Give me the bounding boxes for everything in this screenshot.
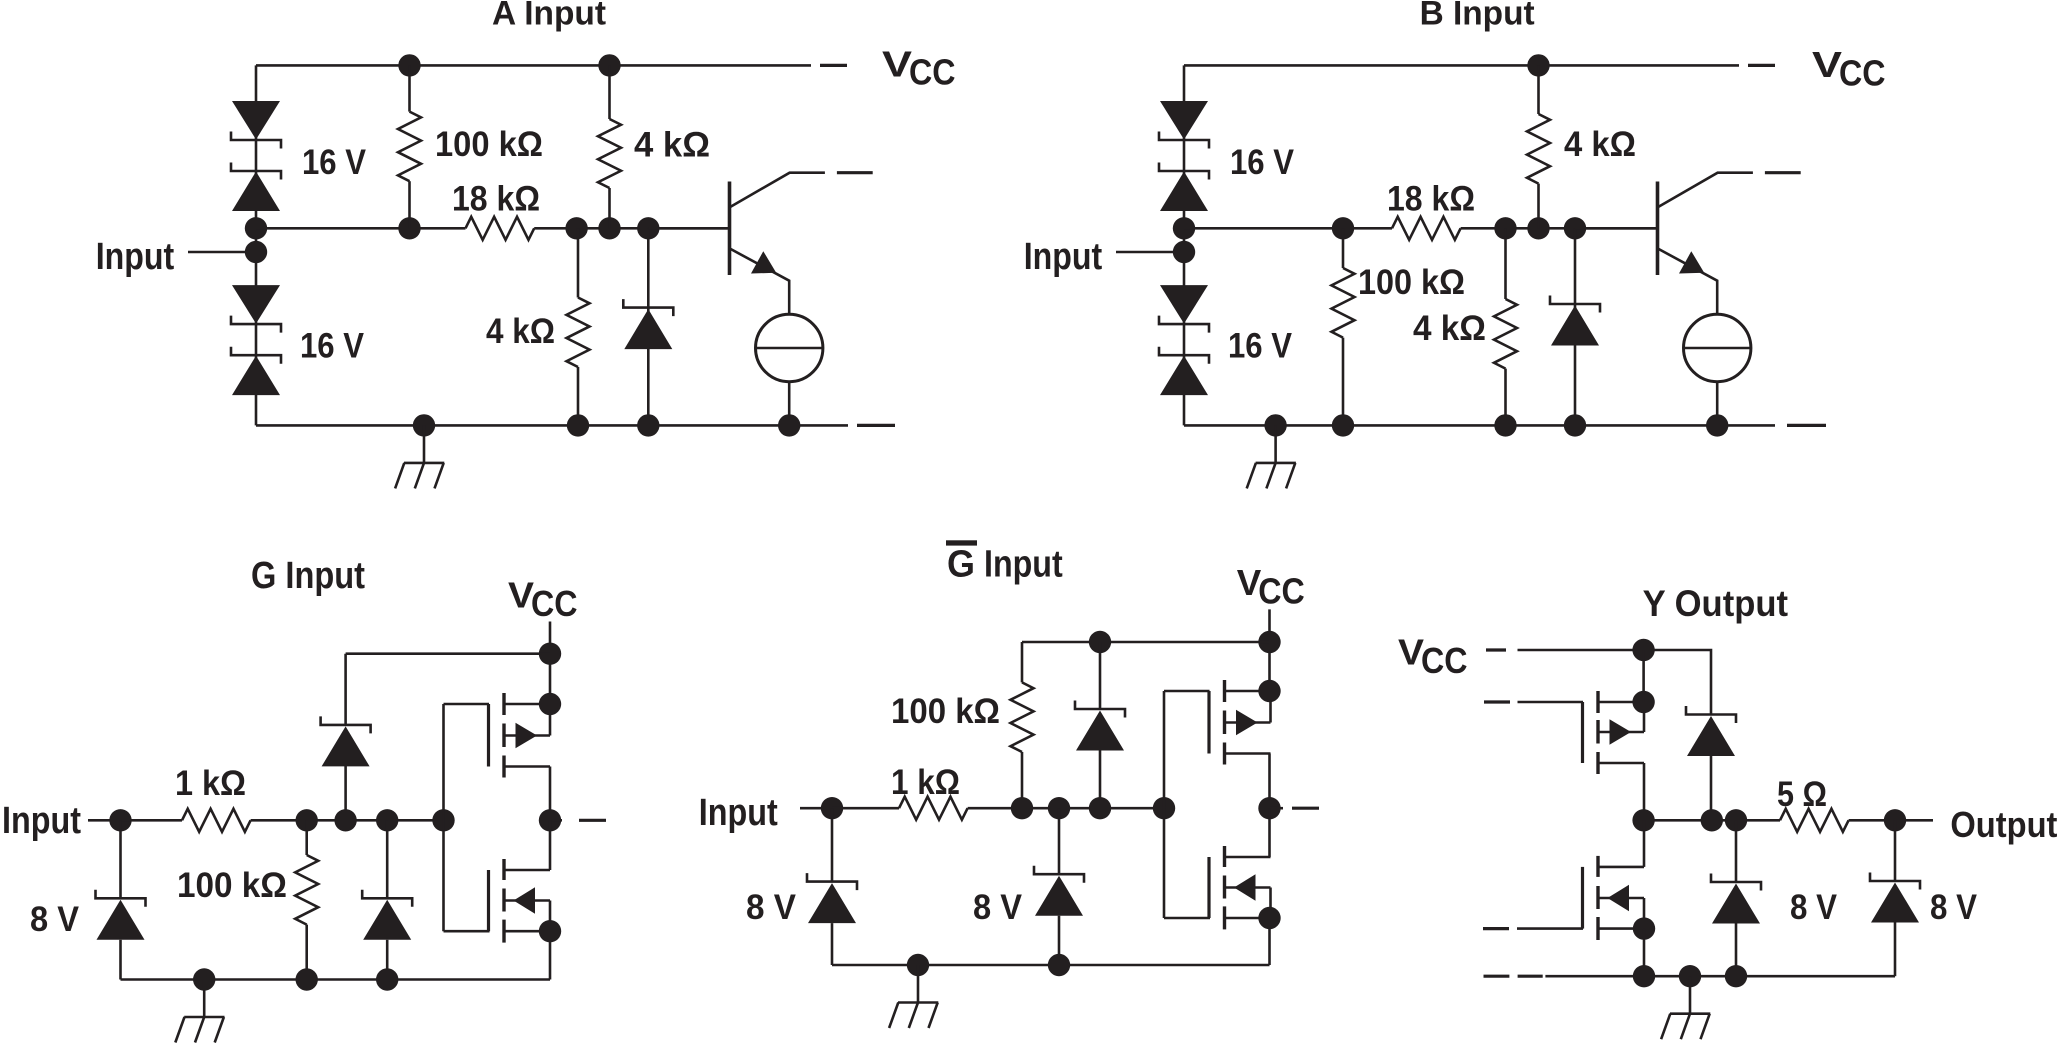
- svg-text:8 V: 8 V: [30, 899, 79, 939]
- wire A mid line right: [534, 227, 729, 230]
- PMOS M1 (G) channel: [502, 693, 505, 778]
- svg-text:8 V: 8 V: [1790, 887, 1837, 927]
- wire Input stub (G): [88, 819, 115, 822]
- zener D4 cathode bar (A): [231, 347, 281, 364]
- wire B mid line left: [1184, 227, 1392, 230]
- wire G-bar top link: [1022, 641, 1270, 644]
- wire Y nmos source to rail: [1643, 929, 1646, 977]
- NMOS M4 (G-bar) body arrow: [1234, 874, 1256, 900]
- svg-text:G: G: [947, 543, 975, 586]
- wire Y NMOS gate lead: [1517, 927, 1583, 930]
- svg-text:CC: CC: [1258, 570, 1305, 611]
- resistor R5 100k (B): [1332, 268, 1355, 338]
- NMOS M2 (G) gate plate: [487, 870, 490, 931]
- wire Q2 base lead: [1575, 227, 1656, 230]
- node A mid-100k junction: [398, 217, 420, 239]
- svg-text:V: V: [1812, 44, 1842, 85]
- svg-text:100 kΩ: 100 kΩ: [435, 124, 543, 164]
- wire G top zener upper lead: [344, 654, 347, 725]
- wire G PMOS gate stub: [444, 703, 490, 706]
- node B gnd-100k junction: [1332, 414, 1354, 436]
- wire G-bar NMOS gate stub: [1164, 917, 1210, 920]
- pin label Output (Y): [1950, 804, 2057, 845]
- title B Input: [1420, 0, 1535, 33]
- wire A input branch: [255, 65, 258, 425]
- wire ground rail (A): [256, 424, 848, 427]
- PMOS M1 (G) body arrow: [516, 723, 538, 748]
- ground (B): [1247, 425, 1296, 488]
- wire G-bar mid line right: [968, 807, 1164, 810]
- NMOS M6 (Y) body arrow: [1608, 885, 1630, 911]
- wire G clamp zener upper lead: [386, 820, 389, 898]
- ground (A): [395, 425, 444, 488]
- zener D13 8V (G input clamp): [96, 890, 146, 940]
- wire 4k pullup top lead (B): [1537, 65, 1540, 114]
- wire ground rail dash (B): [1787, 424, 1826, 427]
- transistor Q2 (B) emitter: [1658, 248, 1718, 315]
- wire 100k top lead (G): [305, 820, 308, 855]
- svg-text:Output: Output: [1950, 804, 2057, 845]
- zener D1 16V (A upper pair, down): [232, 101, 280, 140]
- zener D11 (G top clamp): [321, 716, 371, 766]
- PMOS M3 (G-bar) body lead: [1225, 721, 1271, 724]
- node G-bar vcc junction: [1258, 631, 1280, 653]
- PMOS M5 (Y) channel: [1596, 691, 1599, 774]
- value label 16 V (A lower): [300, 326, 364, 366]
- NMOS M2 (G) source lead: [504, 930, 550, 933]
- resistor R9 1k (G): [182, 809, 251, 832]
- wire G output stub: [550, 819, 562, 822]
- svg-text:CC: CC: [1421, 640, 1468, 681]
- node G-bar input: [821, 797, 843, 819]
- wire Y pmos source to vcc: [1642, 650, 1645, 702]
- resistor R11 100k (G-bar): [1011, 682, 1034, 752]
- wire Input stub (B): [1116, 251, 1176, 254]
- wire ground rail riser (G): [549, 931, 552, 979]
- zener D6 16V (B upper pair, down): [1160, 101, 1208, 140]
- node Y zener-left tap: [1725, 809, 1747, 831]
- zener D9 cathode bar (B): [1159, 347, 1209, 364]
- value label 8 V (Y right): [1930, 887, 1977, 927]
- PMOS M3 (G-bar) drain lead: [1225, 752, 1271, 755]
- value label 4 kOhm pulldown (B): [1413, 308, 1486, 348]
- value label 8 V (G-bar mid): [973, 887, 1022, 927]
- wire G NMOS gate stub: [444, 930, 490, 933]
- resistor R2 18k (A): [466, 217, 535, 240]
- svg-text:Input: Input: [96, 236, 175, 278]
- resistor R6 18k (B): [1392, 217, 1461, 240]
- transistor Q2 (B) base bar: [1656, 182, 1660, 276]
- wire Y PMOS gate lead: [1518, 701, 1584, 704]
- svg-text:CC: CC: [1839, 52, 1886, 93]
- svg-text:100 kΩ: 100 kΩ: [1358, 262, 1465, 302]
- zener D2 16V (A upper pair, up): [232, 172, 280, 212]
- svg-text:1 kΩ: 1 kΩ: [891, 762, 960, 802]
- PMOS M5 (Y) drain lead: [1598, 762, 1644, 765]
- value label 1 kOhm (G): [175, 763, 246, 803]
- wire B mid line right: [1461, 227, 1658, 230]
- NMOS M2 (G) body lead: [504, 899, 550, 902]
- wire G-bar output dash: [1292, 807, 1319, 810]
- wire Y left zener lower lead: [1735, 924, 1738, 977]
- PMOS M5 (Y) source lead: [1598, 701, 1644, 704]
- node Y vcc junction: [1632, 639, 1654, 661]
- svg-text:1 kΩ: 1 kΩ: [175, 763, 246, 803]
- wire G top zener lower lead: [344, 766, 347, 821]
- wire Y output line left: [1644, 819, 1780, 822]
- pin label Input (A): [96, 236, 175, 278]
- svg-text:8 V: 8 V: [746, 887, 796, 927]
- resistor R7 4k pullup (B): [1527, 114, 1550, 184]
- svg-text:Input: Input: [699, 792, 778, 834]
- node G output: [539, 809, 561, 831]
- PMOS M3 (G-bar) channel: [1223, 680, 1226, 765]
- value label 18 kOhm (B): [1387, 179, 1475, 219]
- NMOS M4 (G-bar) source lead: [1225, 917, 1271, 920]
- title Y Output: [1643, 583, 1788, 624]
- wire NMOS M2 (G) body-source tie: [549, 901, 552, 932]
- NMOS M4 (G-bar) gate plate: [1207, 857, 1210, 918]
- resistor R1 100k (A): [398, 112, 421, 182]
- value label 8 V (G): [30, 899, 79, 939]
- wire ground rail (Y): [1545, 975, 1895, 978]
- svg-text:18 kΩ: 18 kΩ: [452, 179, 540, 219]
- node B rail-4k junction: [1527, 54, 1549, 76]
- node G gnd-zener junction: [376, 968, 398, 990]
- svg-text:18 kΩ: 18 kΩ: [1387, 179, 1475, 219]
- value label 4 kOhm pullup (A): [634, 125, 710, 165]
- svg-text:8 V: 8 V: [1930, 887, 1977, 927]
- node G mid-zener2 junction: [376, 809, 398, 831]
- node B gnd-ground junction: [1264, 414, 1286, 436]
- node A gnd-ground junction: [413, 414, 435, 436]
- resistor R13 5 Ohm (Y): [1780, 809, 1849, 832]
- wire ground rail (G): [121, 978, 551, 981]
- current source I2 (B): [1684, 314, 1751, 381]
- wire G-bar nmos drain to output: [1268, 808, 1271, 857]
- wire Y left zener upper lead: [1735, 820, 1738, 882]
- wire zener D10 branch (B): [1574, 228, 1577, 425]
- transistor Q2 (B) collector: [1658, 173, 1753, 208]
- wire Y output line right: [1849, 819, 1933, 822]
- node B mid-100k junction: [1332, 217, 1354, 239]
- wire G-bar pmos drain to output: [1268, 754, 1271, 809]
- wire ground rail dash (A): [857, 424, 895, 427]
- node G nmos source: [539, 920, 561, 942]
- node G vcc junction: [539, 643, 561, 665]
- wire VCC rail (Y): [1518, 650, 1712, 715]
- node G gnd-100k junction: [296, 968, 318, 990]
- NMOS M6 (Y) channel: [1596, 856, 1599, 940]
- wire 4k pulldown top lead (A): [577, 228, 580, 297]
- node Y pmos source: [1632, 691, 1654, 713]
- pin label Input (B): [1024, 236, 1103, 278]
- wire NMOS M6 (Y) body-source tie: [1643, 898, 1646, 929]
- svg-text:16 V: 16 V: [1230, 142, 1294, 182]
- node G-bar pmos source: [1258, 680, 1280, 702]
- zener D14 (G-bar top clamp): [1075, 701, 1125, 751]
- pin label Input (G-bar): [699, 792, 778, 834]
- zener D7 16V (B upper pair, up): [1160, 172, 1208, 212]
- PMOS M5 (Y) body arrow: [1610, 719, 1632, 744]
- wire PMOS M1 (G) source-body tie: [549, 704, 552, 736]
- wire Y nmos drain to output: [1643, 820, 1646, 867]
- value label 1 kOhm (G-bar): [891, 762, 960, 802]
- wire PMOS M3 (G-bar) source-body tie: [1269, 691, 1272, 723]
- zener D9 16V (B lower pair, up): [1160, 356, 1208, 395]
- wire G pmos drain to output: [549, 767, 552, 821]
- wire ground rail (B): [1184, 424, 1775, 427]
- wire ground rail riser (G-bar): [1268, 918, 1271, 965]
- wire 4k pullup bottom lead (B): [1537, 184, 1540, 229]
- wire zener D5 branch (A): [647, 228, 650, 425]
- value label 100 kOhm (A): [435, 124, 543, 164]
- svg-text:4 kΩ: 4 kΩ: [1413, 308, 1486, 348]
- node A rail-4k junction: [598, 54, 620, 76]
- value label 18 kOhm (A): [452, 179, 540, 219]
- pin label Input (G): [2, 800, 81, 842]
- zener D12 (G mid clamp): [362, 890, 412, 940]
- wire ground rail (G-bar): [832, 964, 1270, 967]
- zener D15 8V (G-bar input clamp): [807, 873, 857, 923]
- NMOS M2 (G) channel: [502, 859, 505, 943]
- wire NMOS M4 (G-bar) body-source tie: [1269, 888, 1272, 919]
- wire G input zener lower lead: [119, 940, 122, 980]
- wire Y right zener upper lead: [1894, 820, 1897, 881]
- node A input lower: [245, 241, 267, 263]
- net label VCC (B): [1812, 44, 1886, 93]
- node A mid-4k1 junction: [598, 217, 620, 239]
- node B mid-zener junction: [1564, 217, 1586, 239]
- zener D4 16V (A lower pair, up): [232, 356, 280, 395]
- zener D1 cathode bar (A): [231, 132, 281, 149]
- svg-text:4 kΩ: 4 kΩ: [486, 311, 555, 351]
- node A gnd-4k junction: [567, 414, 589, 436]
- PMOS M1 (G) body lead: [504, 734, 550, 737]
- PMOS M3 (G-bar) source lead: [1225, 690, 1271, 693]
- ground (G): [175, 980, 224, 1043]
- wire 100k top lead (G-bar): [1021, 642, 1024, 682]
- node G-bar nmos source: [1258, 907, 1280, 929]
- wire 4k pulldown top lead (B): [1504, 228, 1507, 299]
- wire 4k pulldown bottom lead (A): [577, 367, 580, 425]
- svg-text:4 kΩ: 4 kΩ: [1564, 124, 1636, 164]
- value label 16 V (B lower): [1228, 326, 1292, 366]
- NMOS M2 (G) body arrow: [514, 887, 536, 913]
- net label VCC (A): [882, 43, 956, 92]
- svg-text:A Input: A Input: [492, 0, 606, 33]
- node B gnd-isrc junction: [1706, 414, 1728, 436]
- value label 100 kOhm (G-bar): [891, 691, 1000, 731]
- node G-bar mid-100k junction: [1011, 797, 1033, 819]
- node G pmos source: [539, 693, 561, 715]
- node G-bar gnd-ground junction: [907, 954, 929, 976]
- value label 4 kOhm pulldown (A): [486, 311, 555, 351]
- node B input upper: [1173, 217, 1195, 239]
- wire 4k pullup bottom lead (A): [608, 188, 611, 228]
- zener D5 clamp (A): [623, 299, 673, 349]
- zener D3 cathode bar (A): [231, 316, 281, 333]
- transistor Q1 (A) emitter: [730, 248, 790, 315]
- node B gnd-zener junction: [1564, 414, 1586, 436]
- zener D8 16V (B lower pair, down): [1160, 285, 1208, 324]
- wire G-bar top zener lower lead: [1099, 751, 1102, 809]
- node B input lower: [1173, 241, 1195, 263]
- node A gnd-zener junction: [637, 414, 659, 436]
- node G mid-100k junction: [296, 809, 318, 831]
- PMOS M5 (Y) gate plate: [1581, 702, 1584, 763]
- wire VCC drop (G-bar): [1268, 609, 1271, 691]
- wire collector continuation dash (Q1 (A)): [837, 171, 873, 174]
- node Y gnd-ground junction: [1679, 965, 1701, 987]
- value label 100 kOhm (G): [177, 865, 287, 905]
- wire VCC rail dash (B): [1748, 64, 1775, 67]
- svg-text:8 V: 8 V: [973, 887, 1022, 927]
- wire 100k top lead (A): [408, 65, 411, 111]
- zener D8 cathode bar (B): [1159, 316, 1209, 333]
- node B gnd-4k junction: [1494, 414, 1516, 436]
- NMOS M4 (G-bar) body lead: [1225, 886, 1271, 889]
- wire G-bar input zener upper lead: [831, 808, 834, 881]
- node G gate junction: [432, 809, 454, 831]
- value label 16 V (B upper): [1230, 142, 1294, 182]
- NMOS M6 (Y) source lead: [1598, 927, 1644, 930]
- node G-bar gnd-zener junction: [1048, 954, 1070, 976]
- resistor R3 4k pullup (A): [598, 119, 621, 188]
- zener D7 cathode bar (B): [1159, 163, 1209, 180]
- net label VCC (G-bar): [1237, 562, 1305, 611]
- node A gnd-isrc junction: [778, 414, 800, 436]
- wire 100k top lead (B): [1342, 228, 1345, 268]
- PMOS M1 (G) gate plate: [487, 704, 490, 767]
- PMOS M1 (G) drain lead: [504, 765, 550, 768]
- wire Input stub (A): [188, 251, 248, 254]
- node A rail-100k junction: [398, 54, 420, 76]
- wire VCC rail dash (Y): [1486, 648, 1506, 651]
- wire VCC drop (G): [549, 622, 552, 705]
- wire 100k bottom lead (G-bar): [1021, 752, 1024, 808]
- zener D3 16V (A lower pair, down): [232, 285, 280, 324]
- zener D17 (Y top clamp): [1686, 706, 1736, 756]
- node Y output: [1884, 809, 1906, 831]
- transistor Q2 (B) emitter arrow: [1679, 251, 1704, 273]
- svg-text:Input: Input: [2, 800, 81, 842]
- current source I1 (A): [756, 314, 823, 381]
- wire VCC rail (B): [1184, 64, 1739, 67]
- value label 4 kOhm pullup (B): [1564, 124, 1636, 164]
- wire 4k pullup top lead (A): [608, 65, 611, 119]
- ground (G-bar): [889, 965, 938, 1028]
- zener D19 8V (Y right clamp): [1870, 873, 1920, 923]
- NMOS M6 (Y) drain lead: [1598, 866, 1644, 869]
- net label VCC (Y): [1398, 632, 1468, 681]
- resistor R8 4k pulldown (B): [1494, 299, 1517, 369]
- PMOS M1 (G) source lead: [504, 703, 550, 706]
- wire G gate line: [442, 704, 445, 931]
- NMOS M6 (Y) gate plate: [1581, 867, 1584, 929]
- node G mid-zenertop junction: [334, 809, 356, 831]
- wire G-bar PMOS gate stub: [1164, 690, 1210, 693]
- svg-text:4 kΩ: 4 kΩ: [634, 125, 710, 165]
- value label 8 V (G-bar left): [746, 887, 796, 927]
- node Y gnd-nmos junction: [1633, 965, 1655, 987]
- node G-bar mid-zener2 junction: [1048, 797, 1070, 819]
- svg-text:V: V: [882, 43, 912, 84]
- node B mid-4k2 junction: [1494, 217, 1516, 239]
- wire G output dash: [579, 819, 606, 822]
- zener D2 cathode bar (A): [231, 163, 281, 180]
- wire G-bar clamp zener lower lead: [1058, 916, 1061, 965]
- wire current source I1 (A) to ground rail: [788, 382, 791, 426]
- PMOS M3 (G-bar) gate plate: [1207, 691, 1210, 754]
- node Y nmos source: [1633, 917, 1655, 939]
- wire 100k bottom lead (A): [408, 181, 411, 228]
- svg-text:CC: CC: [531, 583, 578, 624]
- wire B input branch: [1183, 65, 1186, 425]
- wire G-bar mid line left: [832, 807, 899, 810]
- wire G top link: [346, 652, 550, 655]
- wire A mid line left: [256, 227, 466, 230]
- zener D6 cathode bar (B): [1159, 132, 1209, 149]
- wire VCC rail (A): [256, 64, 811, 67]
- node G-bar gate junction: [1153, 797, 1175, 819]
- wire G-bar output stub: [1270, 807, 1284, 810]
- zener D10 clamp (B): [1550, 296, 1600, 346]
- zener D18 8V (Y left clamp): [1711, 874, 1761, 924]
- svg-text:CC: CC: [909, 52, 956, 93]
- value label 5 Ohm (Y): [1777, 774, 1827, 814]
- wire Y NMOS gate dash: [1483, 927, 1509, 930]
- NMOS M2 (G) drain lead: [504, 869, 550, 872]
- svg-text:16 V: 16 V: [1228, 326, 1292, 366]
- node G input: [109, 809, 131, 831]
- wire Y PMOS gate dash: [1484, 700, 1510, 703]
- wire G clamp zener lower lead: [386, 940, 389, 980]
- svg-text:Input: Input: [1024, 236, 1103, 278]
- ground (Y): [1661, 976, 1710, 1039]
- node G-bar output: [1258, 797, 1280, 819]
- wire collector continuation dash (Q2 (B)): [1765, 171, 1801, 174]
- value label 100 kOhm (B): [1358, 262, 1465, 302]
- wire G-bar gate line: [1163, 691, 1166, 918]
- svg-text:100 kΩ: 100 kΩ: [177, 865, 287, 905]
- svg-text:Input: Input: [984, 543, 1063, 586]
- wire G-bar clamp zener upper lead: [1058, 808, 1061, 874]
- title A Input: [492, 0, 606, 33]
- wire 100k bottom lead (G): [305, 925, 308, 980]
- wire G-bar input zener lower lead: [831, 923, 834, 965]
- node A mid-zener junction: [637, 217, 659, 239]
- zener D16 8V (G-bar mid clamp): [1034, 866, 1084, 916]
- node Y gnd-zener junction: [1725, 965, 1747, 987]
- svg-text:100 kΩ: 100 kΩ: [891, 691, 1000, 731]
- wire G mid line left: [121, 819, 183, 822]
- wire G input zener upper lead: [119, 820, 122, 898]
- wire ground rail dash 1 (Y): [1484, 975, 1510, 978]
- node G-bar mid-zenertop junction: [1089, 797, 1111, 819]
- wire ground rail dash 2 (Y): [1518, 975, 1543, 978]
- value label 16 V (A upper): [302, 142, 366, 182]
- wire Input stub (G-bar): [800, 807, 827, 810]
- wire PMOS M5 (Y) source-body tie: [1643, 702, 1646, 732]
- svg-text:16 V: 16 V: [300, 326, 364, 366]
- transistor Q1 (A) base bar: [728, 182, 732, 276]
- NMOS M4 (G-bar) channel: [1223, 846, 1226, 929]
- transistor Q1 (A) emitter arrow: [751, 251, 776, 273]
- PMOS M5 (Y) body lead: [1598, 731, 1644, 734]
- wire G nmos drain to output: [549, 820, 552, 870]
- node A input upper: [245, 217, 267, 239]
